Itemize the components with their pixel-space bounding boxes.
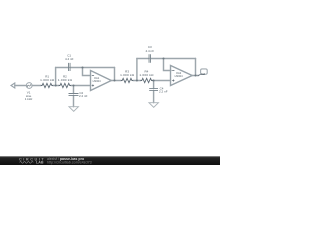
source V1 xyxy=(26,83,32,89)
junction dot C2 node xyxy=(72,84,74,86)
wire C2 to ground xyxy=(73,95,75,106)
source V1 sine squiggle xyxy=(27,84,31,87)
output flag xyxy=(201,69,208,74)
junction dot C4 node xyxy=(153,79,155,81)
minus pin OA1 xyxy=(92,75,94,77)
wire port to V1 xyxy=(15,85,27,87)
junction dot feedback OA2 xyxy=(162,57,164,59)
wire drop to inverting input OA1 xyxy=(83,68,91,76)
capacitor C3 xyxy=(149,54,151,63)
wire riser junction to C1 xyxy=(55,68,57,86)
resistor R4 xyxy=(141,78,153,82)
svg-text:http://circuitlab.com/c4zd73: http://circuitlab.com/c4zd73 xyxy=(47,161,92,165)
wire R3 to R4 xyxy=(133,80,141,82)
wire C4 to ground xyxy=(153,91,155,103)
wire C3 to output drop xyxy=(150,58,195,60)
wire C1 left xyxy=(56,67,69,69)
plus pin OA1 xyxy=(92,85,94,87)
wire riser junction to C3 xyxy=(136,59,138,81)
svg-text:LM324: LM324 xyxy=(93,79,101,83)
output flag tail xyxy=(198,74,201,76)
capacitor C4 xyxy=(149,89,158,91)
watermark logo CIRCUIT xyxy=(19,157,45,164)
wire feedback down to output node OA2 xyxy=(195,59,197,76)
svg-text:2.2 nF: 2.2 nF xyxy=(79,94,88,98)
wire R4 to OA2 plus input xyxy=(153,80,171,82)
wire OA1 output to R3 xyxy=(111,80,121,82)
wire C3 left xyxy=(137,58,149,60)
svg-text:out: out xyxy=(201,72,205,76)
wire V1 to R1 xyxy=(32,85,41,87)
ground GND2 xyxy=(149,103,158,108)
wire R1 to R2 xyxy=(53,85,59,87)
wire drop to inverting input OA2 xyxy=(164,59,172,71)
svg-text:4.4 nF: 4.4 nF xyxy=(65,57,74,61)
op-amp OA1 xyxy=(91,71,112,91)
capacitor C1 xyxy=(69,63,71,71)
minus pin OA2 xyxy=(172,70,174,72)
resistor R2 xyxy=(59,83,71,87)
input port xyxy=(11,83,15,88)
junction dot R1-R2-C1 xyxy=(55,84,57,86)
svg-text:2.2 nF: 2.2 nF xyxy=(159,89,168,93)
svg-text:LAB: LAB xyxy=(36,161,44,165)
wire C1 to output drop xyxy=(70,67,115,69)
junction dot output OA2 xyxy=(194,74,196,76)
watermark bar xyxy=(0,156,220,165)
ground GND1 xyxy=(69,107,78,112)
svg-text:4.4 nF: 4.4 nF xyxy=(146,49,155,53)
svg-text:1.000 kΩ: 1.000 kΩ xyxy=(40,78,55,82)
junction dot R3-R4-C3 xyxy=(136,79,138,81)
plus pin OA2 xyxy=(172,80,174,82)
watermark logo wave xyxy=(20,162,34,164)
junction dot feedback OA1 xyxy=(81,66,83,68)
wire feedback down to output node OA1 xyxy=(114,68,116,81)
wire C2 node down xyxy=(73,86,75,94)
junction dot output OA1 xyxy=(113,79,115,81)
svg-text:LM324: LM324 xyxy=(175,74,183,78)
svg-text:1.000 kΩ: 1.000 kΩ xyxy=(139,73,154,77)
wire R2 to OA1 plus input xyxy=(71,85,91,87)
svg-text:1.000 kΩ: 1.000 kΩ xyxy=(120,73,135,77)
op-amp OA2 xyxy=(171,66,193,86)
wire OA2 output xyxy=(192,75,198,77)
svg-text:1.000 kΩ: 1.000 kΩ xyxy=(58,78,73,82)
resistor R1 xyxy=(41,83,53,87)
svg-text:1 kHz: 1 kHz xyxy=(25,97,33,101)
resistor R3 xyxy=(121,78,133,82)
capacitor C2 xyxy=(69,94,79,96)
wire C4 node down xyxy=(153,81,155,89)
watermark line 1 author / title xyxy=(47,157,92,164)
